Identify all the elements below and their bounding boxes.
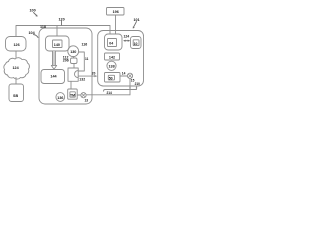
svg-text:144: 144 — [50, 74, 57, 78]
valve symbol (circle-X) right — [127, 73, 132, 78]
label 101 with leader arrow to right module — [133, 18, 140, 29]
wire valve to pump box — [73, 64, 75, 69]
box B (bottom-left small rounded box) — [9, 84, 24, 102]
svg-text:118: 118 — [40, 25, 46, 29]
svg-text:SB: SB — [13, 94, 18, 98]
long exhaust wire A — [86, 94, 130, 96]
label 100 with leader arrow — [30, 9, 38, 17]
label 104 with curved leader to left module edge — [29, 31, 39, 37]
wide box 144 — [41, 70, 65, 84]
svg-text:138: 138 — [109, 65, 115, 69]
box 142 — [105, 53, 120, 60]
thick double-line arrow from nested box L down to wide box 144 — [51, 51, 56, 69]
wire bottom box to valve symbol left — [77, 94, 80, 96]
svg-text:116: 116 — [82, 43, 88, 47]
small valve box below circle 130 — [71, 57, 78, 64]
circle 136 bottom-left of module — [56, 93, 65, 102]
svg-text:10: 10 — [134, 42, 138, 46]
wire from main wire into nested box L — [56, 26, 58, 37]
top-right box 106 — [107, 8, 125, 16]
wire circle 130 right, down to pump box — [78, 52, 84, 71]
pump box with D-shape — [68, 68, 78, 81]
wire from top box down into right module — [115, 15, 117, 34]
box 108 with inner label box — [131, 37, 142, 49]
svg-text:TM: TM — [70, 94, 75, 98]
cloud (atmosphere) — [4, 58, 30, 79]
inter-module arrow wire — [78, 75, 97, 77]
nested box R with inner label box — [105, 34, 123, 50]
wire bottom box R to valve symbol R, label above — [120, 71, 127, 76]
svg-text:13: 13 — [85, 98, 89, 102]
svg-text:142: 142 — [109, 56, 115, 60]
circle CB right module — [107, 61, 116, 70]
vertical wire valve-R to wires A/B with up arrow — [129, 79, 131, 95]
right module (rounded rect) — [98, 31, 144, 87]
svg-text:04: 04 — [109, 42, 113, 46]
nested box L (engine) with inner label box 102 — [46, 36, 70, 51]
svg-text:124: 124 — [124, 35, 130, 39]
labels 112 / 206 left of valve — [63, 55, 69, 62]
left module (large rounded rect) — [39, 28, 92, 104]
wire B with end hook and up-arrow — [104, 86, 138, 91]
svg-text:136: 136 — [57, 96, 63, 100]
svg-text:20: 20 — [92, 72, 96, 76]
two-way arrow between nested box R and box 108 — [123, 35, 130, 42]
svg-text:11: 11 — [85, 57, 89, 61]
svg-text:100: 100 — [30, 9, 36, 13]
valve symbol (circle-X) left — [81, 93, 86, 98]
svg-text:130: 130 — [70, 50, 76, 54]
svg-text:126: 126 — [14, 43, 20, 47]
main top wire — [16, 26, 110, 37]
wire pump box down to bottom box — [70, 81, 72, 89]
svg-text:132: 132 — [79, 77, 85, 81]
svg-text:14: 14 — [122, 71, 126, 75]
svg-text:140: 140 — [54, 43, 60, 47]
svg-text:214: 214 — [107, 91, 113, 95]
wire cloud to box B — [15, 78, 17, 85]
wire box A to cloud — [15, 51, 17, 58]
label 120 on main wire — [59, 17, 65, 25]
svg-text:206: 206 — [63, 59, 69, 63]
circle 130 — [68, 46, 79, 57]
svg-text:124: 124 — [13, 66, 20, 70]
svg-text:196: 196 — [113, 10, 119, 14]
bottom double box with label — [68, 89, 78, 99]
svg-text:210: 210 — [135, 82, 141, 86]
svg-text:50: 50 — [109, 76, 113, 80]
bottom box right module with inner label box — [105, 73, 121, 83]
box A (top-left rounded box) — [6, 37, 27, 52]
